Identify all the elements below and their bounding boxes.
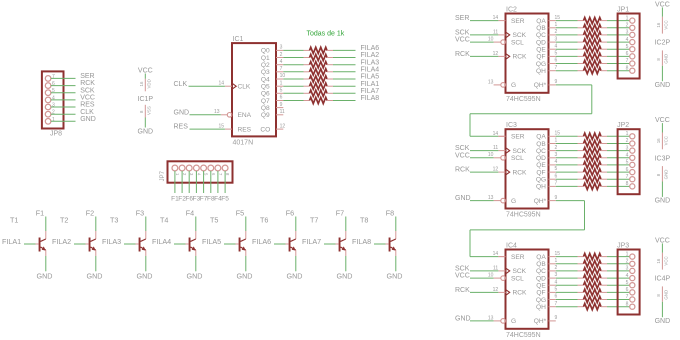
- svg-text:QA: QA: [536, 134, 546, 141]
- svg-text:1: 1: [555, 22, 558, 28]
- svg-text:5: 5: [555, 287, 558, 293]
- svg-text:CO: CO: [260, 126, 270, 133]
- svg-text:VCC: VCC: [455, 273, 470, 280]
- svg-text:4: 4: [52, 95, 55, 101]
- svg-text:5: 5: [555, 51, 558, 57]
- svg-text:QB: QB: [536, 25, 546, 32]
- svg-text:FILA7: FILA7: [302, 237, 321, 246]
- svg-text:T2: T2: [60, 215, 68, 224]
- svg-text:GND: GND: [80, 116, 96, 123]
- svg-text:FILA3: FILA3: [361, 59, 380, 66]
- svg-text:FILA2: FILA2: [52, 237, 71, 246]
- svg-text:SCL: SCL: [511, 39, 524, 46]
- svg-text:GND: GND: [387, 272, 403, 281]
- svg-text:15: 15: [555, 131, 561, 137]
- svg-text:RES: RES: [238, 126, 252, 133]
- svg-text:7: 7: [52, 74, 55, 80]
- svg-text:SCK: SCK: [80, 87, 95, 94]
- svg-text:RCK: RCK: [455, 51, 470, 58]
- svg-text:FILA4: FILA4: [152, 237, 171, 246]
- svg-text:3: 3: [280, 45, 283, 51]
- svg-text:QH: QH: [536, 304, 546, 311]
- svg-text:9: 9: [280, 102, 283, 108]
- svg-text:3: 3: [555, 272, 558, 278]
- svg-text:SER: SER: [455, 15, 469, 22]
- svg-text:QF: QF: [536, 290, 545, 297]
- svg-text:RCK: RCK: [80, 80, 95, 87]
- svg-text:1: 1: [555, 138, 558, 144]
- svg-text:F6: F6: [286, 208, 294, 217]
- svg-text:CLK: CLK: [238, 84, 251, 91]
- svg-text:4: 4: [555, 43, 558, 49]
- svg-text:12: 12: [280, 123, 286, 129]
- svg-text:6: 6: [555, 173, 558, 179]
- svg-text:5: 5: [626, 280, 629, 286]
- svg-text:QB: QB: [536, 141, 546, 148]
- svg-text:F5: F5: [221, 195, 229, 202]
- svg-text:T3: T3: [110, 215, 118, 224]
- svg-text:JP7: JP7: [160, 170, 166, 181]
- svg-text:QH*: QH*: [534, 198, 547, 205]
- svg-text:SER: SER: [511, 134, 525, 141]
- svg-text:6: 6: [52, 81, 55, 87]
- svg-text:QE: QE: [536, 47, 546, 54]
- svg-text:CLK: CLK: [80, 109, 94, 116]
- svg-text:FILA5: FILA5: [361, 74, 380, 81]
- svg-text:1: 1: [626, 251, 629, 257]
- svg-text:T7: T7: [310, 215, 318, 224]
- svg-text:74HC595N: 74HC595N: [506, 332, 541, 339]
- svg-text:T4: T4: [160, 215, 168, 224]
- svg-text:13: 13: [488, 79, 494, 85]
- svg-text:JP2: JP2: [617, 122, 629, 129]
- svg-text:VSS: VSS: [147, 106, 152, 115]
- svg-text:7: 7: [555, 301, 558, 307]
- svg-text:IC4P: IC4P: [655, 276, 671, 283]
- svg-text:FILA6: FILA6: [361, 45, 380, 52]
- svg-text:6: 6: [626, 167, 629, 173]
- svg-text:15: 15: [555, 15, 561, 21]
- svg-text:GND: GND: [138, 129, 154, 136]
- svg-text:1: 1: [555, 258, 558, 264]
- svg-text:JP1: JP1: [617, 6, 629, 13]
- svg-text:IC4: IC4: [506, 243, 517, 250]
- svg-text:7: 7: [626, 58, 629, 64]
- svg-text:74HC595N: 74HC595N: [506, 96, 541, 103]
- svg-text:T1: T1: [10, 215, 18, 224]
- svg-text:SCK: SCK: [513, 32, 527, 39]
- svg-text:6: 6: [555, 58, 558, 64]
- svg-text:7: 7: [555, 181, 558, 187]
- svg-text:RCK: RCK: [513, 54, 528, 61]
- svg-text:74HC595N: 74HC595N: [506, 212, 541, 219]
- svg-text:RES: RES: [174, 124, 189, 131]
- svg-text:Q7: Q7: [261, 98, 270, 105]
- svg-text:Q2: Q2: [261, 62, 270, 69]
- svg-text:GND: GND: [655, 82, 671, 89]
- svg-text:QH*: QH*: [534, 82, 547, 89]
- svg-text:SCK: SCK: [455, 30, 470, 37]
- svg-text:3: 3: [626, 145, 629, 151]
- svg-text:RCK: RCK: [513, 169, 528, 176]
- svg-text:VCC: VCC: [138, 68, 153, 75]
- svg-text:JP8: JP8: [50, 130, 62, 137]
- svg-text:2: 2: [626, 22, 629, 28]
- svg-text:SER: SER: [511, 18, 525, 25]
- svg-text:VCC: VCC: [455, 37, 470, 44]
- svg-text:2: 2: [555, 29, 558, 35]
- svg-text:8: 8: [626, 181, 629, 187]
- svg-text:10: 10: [280, 73, 286, 79]
- svg-text:2: 2: [280, 52, 283, 58]
- svg-text:IC2: IC2: [506, 7, 517, 14]
- svg-text:T5: T5: [210, 215, 218, 224]
- svg-text:QE: QE: [536, 162, 546, 169]
- svg-text:VCC: VCC: [664, 136, 669, 145]
- svg-text:F1: F1: [36, 208, 44, 217]
- svg-text:16: 16: [656, 22, 661, 27]
- svg-text:SER: SER: [511, 254, 525, 261]
- svg-text:9: 9: [555, 195, 558, 201]
- svg-text:SCL: SCL: [511, 155, 524, 162]
- svg-text:F7: F7: [336, 208, 344, 217]
- svg-text:FILA8: FILA8: [352, 237, 371, 246]
- svg-text:2: 2: [626, 258, 629, 264]
- svg-text:Q4: Q4: [261, 76, 270, 83]
- svg-text:G: G: [511, 198, 516, 205]
- svg-text:Q6: Q6: [261, 91, 270, 98]
- svg-text:GND: GND: [37, 272, 53, 281]
- svg-text:GND: GND: [664, 54, 669, 64]
- svg-text:Q8: Q8: [261, 105, 270, 112]
- svg-text:3: 3: [555, 152, 558, 158]
- svg-text:GND: GND: [664, 290, 669, 300]
- svg-text:FILA3: FILA3: [102, 237, 121, 246]
- svg-text:G: G: [511, 318, 516, 325]
- svg-text:16: 16: [656, 258, 661, 263]
- svg-text:SCK: SCK: [513, 148, 527, 155]
- svg-text:5: 5: [626, 160, 629, 166]
- svg-text:5: 5: [626, 44, 629, 50]
- svg-text:VCC: VCC: [655, 117, 670, 124]
- svg-text:GND: GND: [137, 272, 153, 281]
- svg-text:RCK: RCK: [455, 167, 470, 174]
- svg-text:GND: GND: [455, 316, 471, 323]
- svg-text:VCC: VCC: [655, 1, 670, 8]
- svg-text:7: 7: [555, 65, 558, 71]
- svg-text:F5: F5: [236, 208, 244, 217]
- svg-text:Q9: Q9: [261, 112, 270, 119]
- svg-text:QG: QG: [536, 61, 546, 68]
- svg-text:SCK: SCK: [513, 268, 527, 275]
- svg-text:6: 6: [280, 95, 283, 101]
- svg-text:VCC: VCC: [455, 152, 470, 159]
- svg-text:SER: SER: [80, 73, 94, 80]
- svg-text:Q0: Q0: [261, 48, 270, 55]
- svg-text:QC: QC: [536, 268, 546, 275]
- svg-text:FILA1: FILA1: [361, 81, 380, 88]
- svg-text:F4: F4: [186, 208, 194, 217]
- svg-text:F3: F3: [136, 208, 144, 217]
- svg-text:VCC: VCC: [664, 20, 669, 29]
- svg-text:9: 9: [555, 79, 558, 85]
- svg-text:T8: T8: [360, 215, 368, 224]
- svg-text:GND: GND: [655, 198, 671, 205]
- svg-text:6: 6: [626, 51, 629, 57]
- svg-text:3: 3: [555, 36, 558, 42]
- svg-text:Q5: Q5: [261, 84, 270, 91]
- svg-text:QA: QA: [536, 18, 546, 25]
- svg-text:QD: QD: [536, 155, 546, 162]
- svg-text:RCK: RCK: [513, 290, 528, 297]
- svg-text:4: 4: [555, 159, 558, 165]
- svg-text:GND: GND: [187, 272, 203, 281]
- svg-text:8: 8: [626, 301, 629, 307]
- svg-text:FILA8: FILA8: [361, 95, 380, 102]
- svg-text:IC2P: IC2P: [655, 40, 671, 47]
- svg-text:Q3: Q3: [261, 69, 270, 76]
- svg-text:FILA4: FILA4: [361, 66, 380, 73]
- svg-text:GND: GND: [337, 272, 353, 281]
- svg-text:2: 2: [626, 138, 629, 144]
- svg-text:Todas de 1k: Todas de 1k: [307, 31, 345, 38]
- svg-text:VCC: VCC: [80, 95, 95, 102]
- svg-text:8: 8: [626, 65, 629, 71]
- svg-text:FILA6: FILA6: [252, 237, 271, 246]
- svg-text:16: 16: [139, 81, 144, 86]
- svg-text:4017N: 4017N: [233, 139, 254, 146]
- svg-text:4: 4: [626, 273, 629, 279]
- svg-text:3: 3: [626, 266, 629, 272]
- svg-text:QB: QB: [536, 261, 546, 268]
- svg-text:JP3: JP3: [617, 242, 629, 249]
- svg-text:4: 4: [555, 279, 558, 285]
- svg-text:16: 16: [656, 138, 661, 143]
- svg-text:9: 9: [555, 315, 558, 321]
- svg-text:SCL: SCL: [511, 275, 524, 282]
- svg-text:RCK: RCK: [455, 287, 470, 294]
- svg-text:5: 5: [52, 88, 55, 94]
- svg-text:5: 5: [280, 88, 283, 94]
- svg-text:QF: QF: [536, 169, 545, 176]
- svg-text:QC: QC: [536, 32, 546, 39]
- svg-text:2: 2: [52, 110, 55, 116]
- svg-text:ENA: ENA: [238, 112, 252, 119]
- svg-text:VDD: VDD: [147, 79, 152, 88]
- svg-text:7: 7: [626, 174, 629, 180]
- svg-text:IC3P: IC3P: [655, 155, 671, 162]
- svg-text:GND: GND: [87, 272, 103, 281]
- svg-text:1: 1: [626, 15, 629, 21]
- svg-text:GND: GND: [287, 272, 303, 281]
- svg-text:FILA1: FILA1: [2, 237, 21, 246]
- svg-text:GND: GND: [655, 318, 671, 325]
- svg-text:13: 13: [214, 109, 220, 115]
- svg-text:3: 3: [52, 103, 55, 109]
- svg-text:Q1: Q1: [261, 55, 270, 62]
- svg-text:GND: GND: [174, 109, 190, 116]
- svg-text:QD: QD: [536, 39, 546, 46]
- svg-text:15: 15: [555, 251, 561, 257]
- svg-text:QC: QC: [536, 148, 546, 155]
- svg-text:1: 1: [280, 80, 283, 86]
- svg-text:SCK: SCK: [455, 266, 470, 273]
- svg-text:6: 6: [555, 294, 558, 300]
- svg-text:FILA2: FILA2: [361, 52, 380, 59]
- svg-text:G: G: [511, 82, 516, 89]
- svg-text:QH: QH: [536, 68, 546, 75]
- svg-text:4: 4: [626, 37, 629, 43]
- svg-text:F8: F8: [386, 208, 394, 217]
- svg-text:CLK: CLK: [174, 81, 188, 88]
- svg-text:QE: QE: [536, 283, 546, 290]
- svg-text:FILA7: FILA7: [361, 88, 380, 95]
- svg-text:VCC: VCC: [655, 237, 670, 244]
- svg-text:IC1: IC1: [233, 36, 244, 43]
- svg-text:GND: GND: [237, 272, 253, 281]
- svg-text:QG: QG: [536, 297, 546, 304]
- svg-text:QF: QF: [536, 54, 545, 61]
- svg-text:6: 6: [626, 287, 629, 293]
- svg-text:T6: T6: [260, 215, 268, 224]
- svg-text:3: 3: [626, 30, 629, 36]
- svg-text:QH: QH: [536, 184, 546, 191]
- svg-text:QG: QG: [536, 177, 546, 184]
- svg-text:4: 4: [280, 59, 283, 65]
- svg-text:QD: QD: [536, 275, 546, 282]
- svg-text:1: 1: [52, 117, 55, 123]
- svg-text:7: 7: [280, 66, 283, 72]
- svg-text:QA: QA: [536, 254, 546, 261]
- svg-text:1: 1: [626, 131, 629, 137]
- svg-text:GND: GND: [455, 195, 471, 202]
- svg-text:QH*: QH*: [534, 318, 547, 325]
- svg-text:SCK: SCK: [455, 145, 470, 152]
- svg-text:5: 5: [555, 166, 558, 172]
- svg-text:2: 2: [555, 145, 558, 151]
- svg-text:7: 7: [626, 294, 629, 300]
- svg-text:IC3: IC3: [506, 122, 517, 129]
- svg-text:F2: F2: [86, 208, 94, 217]
- svg-text:FILA5: FILA5: [202, 237, 221, 246]
- svg-text:GND: GND: [664, 170, 669, 180]
- svg-text:11: 11: [280, 109, 285, 115]
- svg-text:VCC: VCC: [664, 256, 669, 265]
- svg-text:4: 4: [626, 152, 629, 158]
- svg-text:IC1P: IC1P: [138, 96, 154, 103]
- svg-text:RES: RES: [80, 102, 95, 109]
- svg-text:2: 2: [555, 265, 558, 271]
